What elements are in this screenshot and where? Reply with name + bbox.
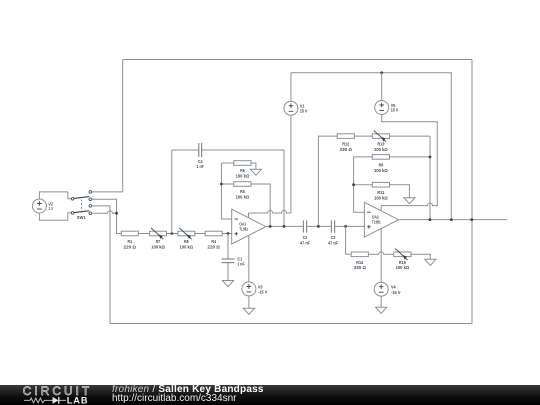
junction OA1 output / R5 [269,225,272,228]
switch SW1 (DPDT) [71,191,91,215]
wire SW1 throw1b down to R1 row [92,199,122,233]
capacitor C1 [222,234,235,281]
label R12 330 ohm [340,142,353,152]
svg-text:R15: R15 [399,260,406,265]
wire OA1 V+ pin to V1 (hops over feedback wires) [249,115,291,217]
wire R4 to OA1 + input [222,233,232,235]
svg-text:100 kΩ: 100 kΩ [236,174,250,179]
node OA1 + input [227,232,230,235]
ground for R15 [425,259,436,265]
svg-text:R7: R7 [156,239,161,244]
svg-text:15 V: 15 V [300,108,308,113]
voltage source V3 [242,282,256,308]
voltage source V1 [284,73,298,116]
capacitor C4 [172,143,284,157]
op-amp OA1 TL081 [232,209,266,244]
resistor R9 [372,155,430,160]
svg-text:100 kΩ: 100 kΩ [180,244,194,249]
ground for V4 [376,307,387,313]
capacitor C3 [331,220,364,232]
wire node up to C4 [171,150,173,234]
wire V2 top lead to SW1 pole 1 [39,192,71,199]
wire SW1 throw2b to junction (hop over outer-left wire) [92,211,117,214]
svg-text:100 kΩ: 100 kΩ [374,168,388,173]
label V3 -15 V [258,284,268,294]
svg-text:R11: R11 [377,190,384,195]
svg-text:100 kΩ: 100 kΩ [151,244,165,249]
svg-text:SW1: SW1 [77,215,86,220]
junction R5 left on - input line [220,183,223,186]
label R8 100 kohm [180,239,194,249]
junction OA1 output / C4 [283,225,286,228]
svg-text:R4: R4 [211,239,216,244]
svg-text:1 nF: 1 nF [237,261,244,266]
wire C4 right side down to OA1 output [283,150,285,226]
svg-text:100 kΩ: 100 kΩ [374,147,388,152]
wire outer loop bottom edge [110,323,472,325]
wire V5 bottom to OA2 V+ pin (hop over R13 wire) [381,115,437,211]
svg-text:-15 V: -15 V [391,290,401,295]
wire R1 to R7 [138,233,149,235]
label R14 330 ohm [354,260,367,270]
svg-text:R8: R8 [184,239,189,244]
resistor R6 [221,161,256,170]
label V5 15 V [391,103,399,113]
voltage source V2 [32,199,46,213]
resistor R11 [354,182,410,197]
wire OA1 V- pin to V3 [248,236,250,282]
footer bar [0,385,540,405]
svg-text:330 Ω: 330 Ω [354,265,367,270]
label R6 100 kohm [236,168,250,178]
label R5 100 kohm [236,189,250,199]
svg-text:100 kΩ: 100 kΩ [396,265,410,270]
wire outer loop left edge up to SW1 throw2a [92,206,110,324]
label V2 1 V [48,201,53,211]
wire +15 rail V1 to right, down to OA2 output [291,73,451,220]
ground for V3 [243,308,254,314]
label C1 1 nF [237,256,244,266]
svg-text:C3: C3 [331,235,336,240]
svg-text:R1: R1 [128,239,133,244]
ground for R6 [250,169,261,175]
junction OA2 output / rail [450,218,453,221]
potentiometer R13 [372,130,430,141]
capacitor C2 [303,220,331,232]
label R15 100 kohm [396,260,410,270]
svg-text:TL081: TL081 [372,219,381,224]
label V4 -15 V [391,285,401,295]
potentiometer R7 [150,228,167,239]
svg-text:330 Ω: 330 Ω [340,147,353,152]
wire OA2 output row to right stub [399,219,508,221]
wire OA1 - input vertical [221,163,231,219]
junction C3 / OA2 + input / R14 [344,225,347,228]
wire outer loop top edge [123,59,472,61]
ground for C1 [222,281,233,287]
potentiometer R8 [178,228,195,239]
label V1 15 V [300,104,308,114]
svg-text:220 Ω: 220 Ω [124,244,137,249]
potentiometer R15 [394,249,431,260]
svg-text:100 kΩ: 100 kΩ [236,195,250,200]
label R4 220 ohm [207,239,220,249]
CircuitLab logo [23,384,93,405]
junction V5 on rail [380,71,383,74]
svg-text:R13: R13 [377,142,384,147]
svg-text:220 Ω: 220 Ω [207,244,220,249]
svg-text:R9: R9 [379,162,384,167]
resistor R1 [121,231,138,236]
junction node R7/R8 to C4 [170,232,173,235]
wire OA2 - input vertical [354,157,373,212]
label R13 100 kohm [374,142,388,152]
svg-text:-15 V: -15 V [258,289,268,294]
resistor R4 [205,231,222,236]
label R7 100 kohm [151,239,165,249]
junction OA2 output / outer loop [470,218,473,221]
wire outer loop right edge [471,60,473,324]
svg-text:1 V: 1 V [48,206,53,211]
label R11 100 kohm [374,190,388,200]
svg-text:47 nF: 47 nF [328,240,338,245]
junction R11 left on - input line [352,183,355,186]
wire R13 right down to OA2 output [429,136,431,220]
wire R12 vertical down to C2/C3 junction [318,136,337,226]
svg-text:R14: R14 [356,260,363,265]
label C3 47 nF [328,235,338,245]
label C2 47 nF [300,235,310,245]
wire OA1 output row [266,225,304,227]
wire R8 to R4 [195,233,205,235]
svg-text:R6: R6 [240,168,245,173]
resistor R5 [221,182,270,227]
wire R7 to R8 [167,233,178,235]
footer text [112,385,264,404]
svg-text:R12: R12 [342,142,349,147]
label R9 100 kohm [374,162,388,172]
svg-text:100 kΩ: 100 kΩ [374,196,388,201]
svg-text:15 V: 15 V [391,108,399,113]
ground for R11 [404,198,415,204]
svg-text:47 nF: 47 nF [300,240,310,245]
voltage source V5 [375,73,389,115]
svg-text:R5: R5 [240,189,245,194]
svg-text:LAB: LAB [67,395,89,405]
svg-text:1 nF: 1 nF [197,164,204,169]
svg-text:C2: C2 [303,235,308,240]
resistor R14 [351,252,394,257]
junction C2/C3 with R12 vertical [317,225,320,228]
voltage source V4 [374,282,388,307]
wire SW1 throw1a up to outer top-left [92,60,123,192]
junction throw2b/throw1b [115,212,118,215]
wire V2 bottom lead to SW1 pole 2 [39,213,71,220]
op-amp OA2 TL081 [364,202,398,237]
junction OA2 output / R13 [429,218,432,221]
svg-text:TL081: TL081 [239,226,248,231]
wire junction down to R14 [346,226,352,254]
label C4 1 nF [197,159,204,169]
resistor R12 [337,134,372,139]
label R1 220 ohm [124,239,137,249]
junction R9 right on R13 vertical [429,156,432,159]
wire OA2 V- pin down to V4 [380,229,382,283]
